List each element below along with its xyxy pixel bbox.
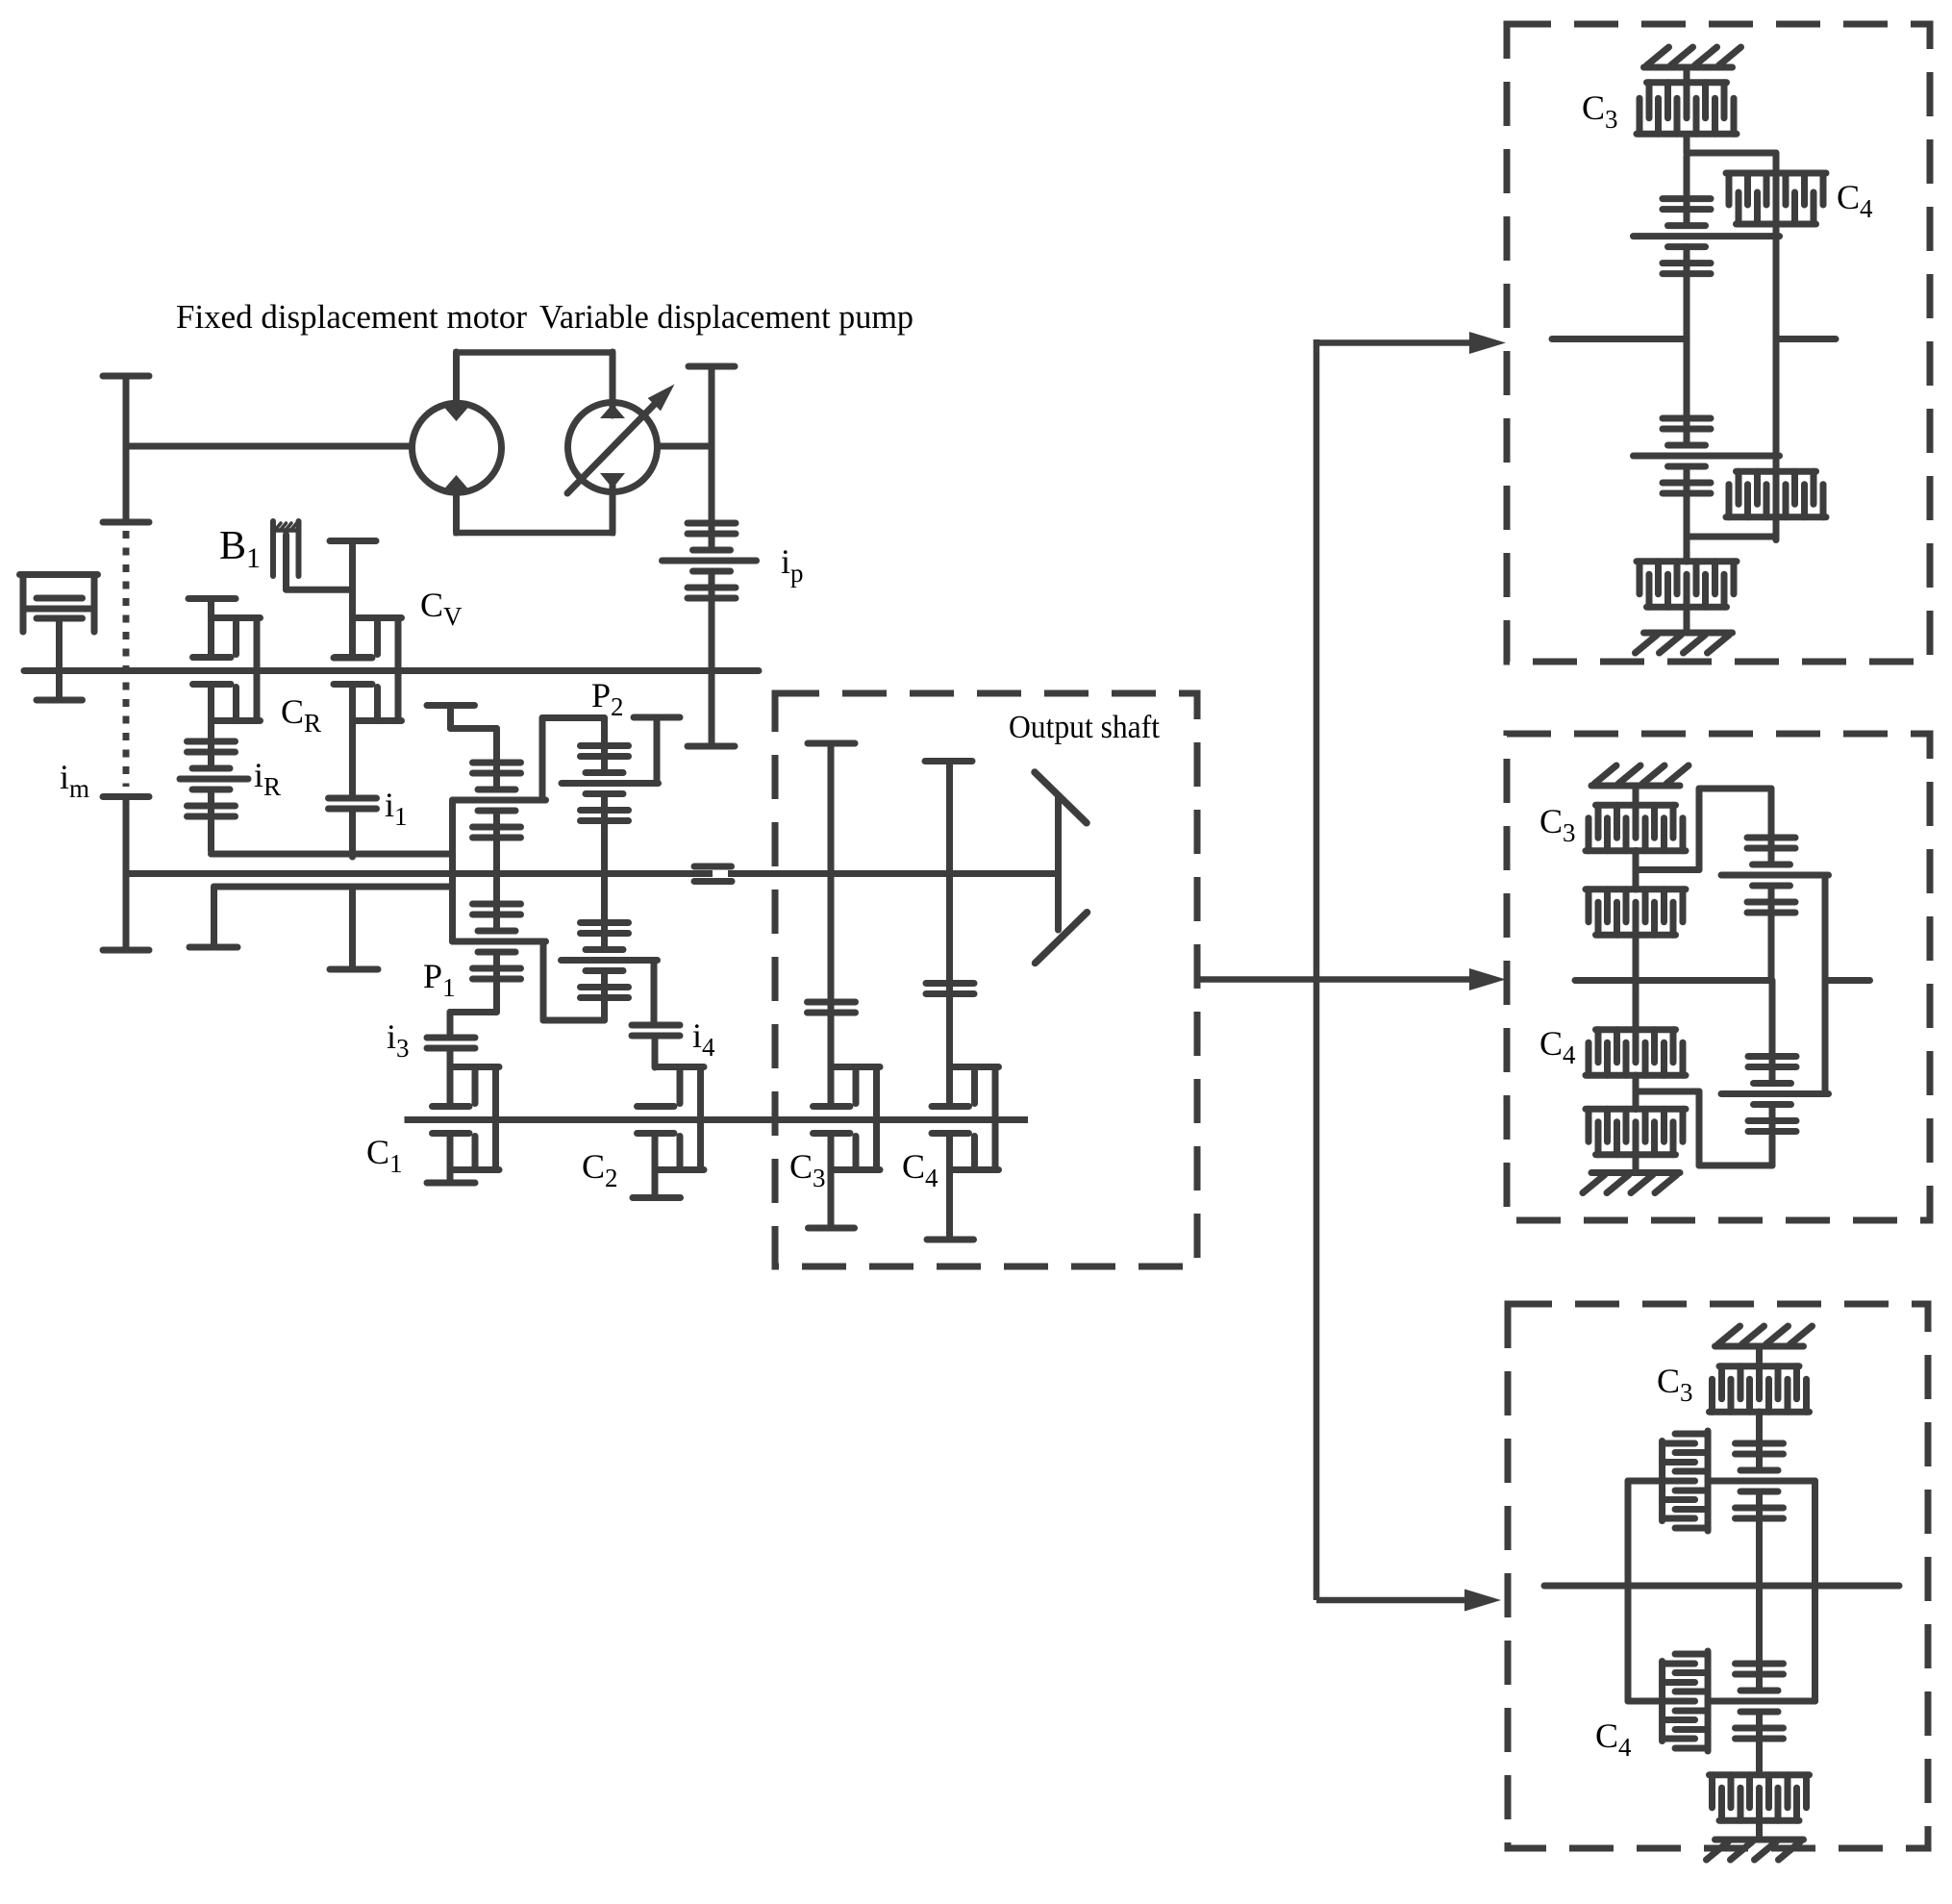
arrow to top detail (1316, 332, 1506, 354)
label Output shaft (1009, 710, 1161, 745)
shaft stub below i_R (189, 887, 238, 947)
variable displacement pump circle (568, 403, 658, 492)
gear upper box3 (1736, 1437, 1784, 1589)
clutch C4 (927, 1067, 999, 1240)
ground top box2 (1591, 765, 1689, 786)
friction clutch left upper box3 (1663, 1431, 1709, 1531)
svg-text:Output shaft: Output shaft (1009, 710, 1161, 745)
shaft end P1 top (427, 706, 497, 764)
main shaft box2 (1575, 977, 1870, 984)
clutch CR (188, 599, 261, 721)
label i_p (781, 542, 804, 588)
trunk line to detail views (1314, 339, 1320, 1600)
wire gear outputs to carrier (212, 851, 453, 858)
link stem to right gear box2 (1636, 789, 1771, 873)
friction clutch C3 box3 (1710, 1349, 1810, 1412)
pump arrow top (600, 399, 625, 418)
lower main shaft right part (728, 870, 1059, 877)
svg-text:Variable displacement pump: Variable displacement pump (539, 298, 913, 336)
link to lower right gear box2 (1636, 1091, 1772, 1165)
pump variable arrow (diagonal) (567, 385, 675, 494)
hydrostatic loop bottom (454, 491, 616, 533)
output bevel gear (1035, 772, 1088, 964)
dashed box output shaft (775, 693, 1197, 1266)
rect frame left box3 (1625, 1481, 1632, 1701)
friction clutch C3 box1 (1637, 70, 1737, 134)
label Variable displacement pump (539, 298, 913, 336)
label P2 (591, 676, 624, 721)
input vertical shaft left (103, 376, 149, 522)
planetary P1 lower gear (453, 873, 546, 1012)
right ring shaft box2 (1822, 875, 1829, 1094)
label C4 box2 (1539, 1024, 1576, 1069)
label i_R (254, 756, 281, 801)
wire lower connector (214, 884, 453, 890)
label C4 box1 (1837, 178, 1873, 223)
link to C4 box1 (1687, 135, 1776, 237)
gear i3 (427, 1038, 475, 1106)
dotted line gear mesh i_m (123, 531, 130, 787)
label C3 (789, 1147, 826, 1192)
label C4 box3 (1595, 1716, 1632, 1762)
ground bottom box3 (1707, 1840, 1804, 1860)
clutch CV (330, 541, 402, 721)
carrier link P1-P2 lower (543, 941, 605, 1020)
shaft i_p vertical (688, 366, 735, 746)
pump arrow bottom (600, 473, 625, 495)
clutch CV lower stem (334, 685, 372, 796)
friction clutch bottom box1 (1637, 562, 1737, 630)
shaft coupling (694, 866, 732, 882)
hydrostatic loop top (454, 352, 616, 403)
ring link P2 to i4 (651, 961, 658, 1026)
label CV (420, 586, 463, 631)
ring shaft right box1 (1773, 233, 1780, 540)
planetary P2 upper gear (562, 718, 659, 874)
gear i4 (632, 1025, 680, 1067)
label CR (281, 692, 321, 738)
gear on C3 shaft (808, 1002, 856, 1013)
main shaft box3 (1544, 1583, 1899, 1590)
label i4 (692, 1016, 715, 1062)
label C3 box2 (1539, 802, 1576, 847)
main shaft box1 (1552, 336, 1836, 342)
motor arrow bottom (444, 475, 469, 496)
friction clutch lower right box1 (1726, 471, 1826, 517)
ring gear link P2 (634, 717, 680, 784)
wire motor input (126, 443, 410, 450)
dashed box detail 1 (1507, 24, 1930, 662)
right gear upper box2 (1721, 827, 1829, 981)
planetary P1 upper gear (453, 760, 546, 873)
wire pump output (658, 443, 712, 450)
friction clutch C3 box2 (1586, 789, 1686, 851)
central stem box2 a (1633, 851, 1639, 1031)
clutch CR lower stem (193, 685, 232, 741)
gear i_R (180, 736, 248, 851)
carrier vertical P1 (449, 800, 456, 941)
shaft C3 vertical (808, 743, 855, 1107)
gear on C4 shaft (926, 984, 974, 994)
planetary P2 lower gear (562, 873, 658, 1020)
arrow to middle detail (1198, 968, 1507, 990)
ground bottom box1 (1636, 633, 1733, 653)
gear upper box1 (1634, 156, 1780, 339)
central stem box3 mid (1756, 1412, 1763, 1440)
ground top box1 (1644, 47, 1741, 67)
clutch C1 (427, 1067, 499, 1184)
central stem box2 b (1633, 1075, 1639, 1172)
clutch C3 (809, 1067, 881, 1229)
friction clutch C4 box1 (1726, 173, 1826, 224)
engine mount / prime-mover damper symbol (20, 575, 98, 701)
ground bottom box2 (1583, 1173, 1680, 1193)
label i1 (385, 786, 408, 831)
shaft stub below i1 (330, 887, 378, 969)
dashed box detail 3 (1508, 1304, 1928, 1848)
link from lower clutch box1 (1687, 534, 1776, 540)
label C2 (582, 1147, 618, 1192)
svg-text:Fixed displacement motor: Fixed displacement motor (176, 298, 527, 336)
brake B1 (273, 521, 353, 589)
arrow to bottom detail (1316, 1590, 1501, 1612)
label C4 (902, 1147, 938, 1192)
carrier link P1-P2 upper (542, 718, 605, 801)
gear i1 (329, 798, 377, 857)
motor arrow top (444, 400, 469, 421)
bottom layshaft (405, 1116, 1029, 1123)
dashed box detail 2 (1507, 734, 1930, 1220)
label B1 (219, 524, 261, 574)
rect frame bottom box3 (1628, 1698, 1815, 1705)
friction clutch C4 box3 (1663, 1651, 1709, 1751)
label C3 box3 (1657, 1362, 1693, 1407)
fixed displacement motor circle (413, 403, 502, 492)
label C3 box1 (1582, 88, 1618, 134)
gear lower box1 (1634, 339, 1780, 563)
gear i_m lower shaft (103, 797, 149, 951)
clutch C2 (633, 1067, 704, 1198)
friction clutch bottom box3 (1710, 1775, 1810, 1840)
label P1 (423, 957, 456, 1002)
label i_m (60, 758, 89, 803)
label i3 (387, 1017, 410, 1063)
gear lower box3 (1736, 1589, 1784, 1774)
label C1 (366, 1133, 403, 1178)
sun link P1 to i3 (450, 1013, 497, 1038)
friction clutch 4 box2 (1586, 1109, 1686, 1155)
friction clutch 2 box2 (1586, 889, 1686, 936)
rect frame top box3 (1628, 1478, 1815, 1485)
right gear lower box2 (1721, 981, 1829, 1134)
shaft C4 vertical (925, 762, 972, 1107)
lower main shaft (126, 870, 713, 877)
rect frame right box3 (1812, 1481, 1818, 1701)
gear i_p (663, 523, 757, 598)
ground top box3 (1715, 1326, 1813, 1346)
label Fixed displacement motor (176, 298, 527, 336)
main input shaft (upper horizontal) (24, 667, 759, 674)
friction clutch C4 box2 (1586, 1030, 1686, 1076)
